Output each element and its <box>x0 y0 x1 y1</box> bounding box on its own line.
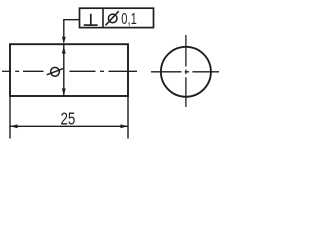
arrow right <box>120 124 128 128</box>
cylinder rectangle <box>10 44 128 96</box>
dimension arrow up <box>62 46 66 54</box>
svg-text:0,1: 0,1 <box>121 11 137 28</box>
leader line from frame <box>64 20 80 38</box>
diameter dimension line <box>63 44 65 96</box>
frame cell divider <box>102 8 104 27</box>
right extension line <box>127 96 129 139</box>
perpendicularity symbol <box>84 14 98 25</box>
svg-text:25: 25 <box>61 108 76 128</box>
feature control frame <box>80 8 154 27</box>
arrow left <box>10 124 18 128</box>
end view circle <box>161 47 211 97</box>
left extension line <box>9 96 11 139</box>
horizontal center line <box>151 71 219 73</box>
vertical center line <box>185 35 187 107</box>
leader arrowhead <box>62 37 66 44</box>
diameter symbol in frame <box>106 11 119 25</box>
dimension arrow down <box>62 88 66 96</box>
cylinder center line <box>2 70 137 72</box>
dimension line 25 <box>10 125 128 127</box>
rotated diameter symbol <box>47 67 64 76</box>
